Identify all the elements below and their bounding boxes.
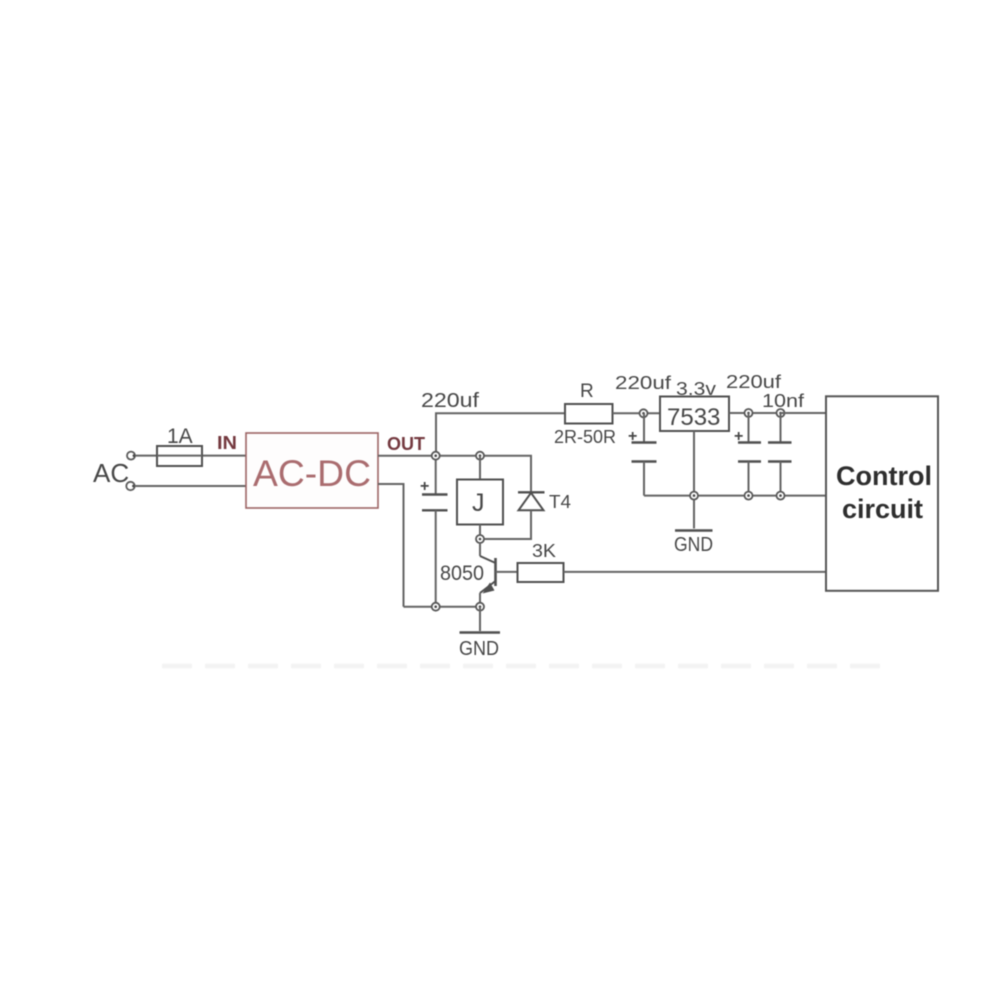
svg-text:+: + [420,478,429,495]
node A (OUT junction) [432,452,440,460]
svg-text:3K: 3K [532,541,556,561]
wire 7533 out to node G [729,412,781,414]
wire node A to node B [436,455,480,457]
wire 3K to control circuit [564,571,827,573]
svg-text:220uf: 220uf [726,372,782,392]
svg-text:T4: T4 [549,492,571,512]
svg-text:R: R [580,381,594,402]
node H (10nf junction) [777,409,785,417]
wire lower AC to AC-DC [135,485,247,487]
svg-text:IN: IN [217,433,237,453]
diode T4 flyback [480,492,545,539]
wire top rail from node A to resistor R [436,413,565,455]
svg-text:8050: 8050 [440,562,484,585]
node E (emitter junction) [476,603,484,611]
wire OUT to node A [378,455,436,457]
capacitor C3 220uf output [734,413,761,496]
wire R to node F [613,412,661,414]
capacitor C2 220uf input [628,413,657,495]
capacitor C1 220uf polarized [420,456,448,607]
wire AC-DC lower output down to bottom rail [378,484,404,607]
svg-text:10nf: 10nf [762,391,805,411]
svg-text:J: J [472,489,485,517]
capacitor C4 10nf [768,413,792,496]
node G (regulator output) [745,409,753,417]
node F (regulator input) [640,409,648,417]
resistor R 2R-50R [565,404,613,424]
regulator U1 7533 [660,397,729,432]
svg-text:7533: 7533 [667,404,720,431]
svg-text:AC: AC [93,458,129,488]
svg-text:2R-50R: 2R-50R [554,427,616,447]
node D (bottom rail left) [432,603,440,611]
control circuit block [826,396,938,591]
ground GND2 (regulator) [674,531,713,557]
svg-text:GND: GND [459,638,499,660]
AC source label [93,458,129,488]
terminal lower [126,482,135,490]
svg-text:+: + [734,428,743,445]
transistor Q1 8050 [480,543,518,607]
wire upper AC to fuse [135,455,157,457]
node C (relay bottom / collector junction) [476,535,484,543]
wire through fuse to AC-DC IN [157,455,246,457]
svg-text:220uf: 220uf [615,373,672,393]
wire node H to control circuit [781,412,827,414]
terminal upper [127,452,135,460]
regulator ground stub [693,431,695,529]
svg-text:1A: 1A [167,425,193,448]
svg-text:OUT: OUT [387,434,425,454]
svg-text:circuit: circuit [842,494,923,524]
svg-text:+: + [628,428,637,445]
bottom rail wire [404,606,481,608]
node J2 (C3 gnd) [745,492,753,500]
wire node B to diode corner [480,456,531,492]
faint watermark line [162,664,890,669]
svg-text:220uf: 220uf [421,390,479,412]
relay coil J [457,456,503,539]
node K (C4 gnd) [777,492,785,500]
node I (7533 gnd) [690,492,698,500]
node B (relay top junction) [476,452,484,460]
svg-text:GND: GND [674,534,713,556]
fuse F1 [157,446,202,466]
ground rail wire [644,495,826,497]
svg-text:AC-DC: AC-DC [253,453,371,494]
AC-DC converter module [246,433,378,508]
svg-text:Control: Control [836,461,932,491]
resistor R2 3K [518,563,564,582]
ground GND1 (emitter) [459,607,500,660]
